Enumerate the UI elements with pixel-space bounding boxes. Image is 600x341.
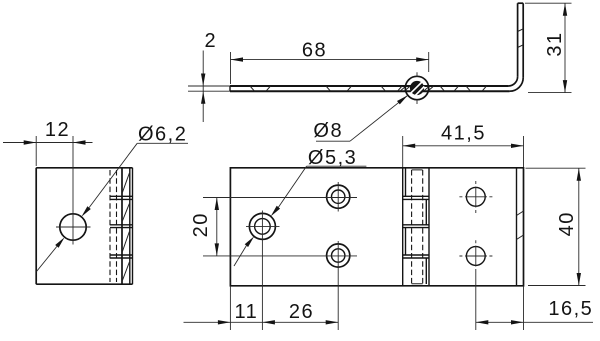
- strip section marks at barrel right: [424, 86, 434, 91]
- strip section mark pair 3: [381, 86, 402, 91]
- plan view bend tick upper: [517, 211, 524, 216]
- dimension 2 extension lines: [188, 86, 230, 91]
- dimension 11 arrow right: [262, 320, 275, 324]
- dimension 11 arrow left: [218, 320, 231, 324]
- svg-text:Ø8: Ø8: [313, 120, 343, 142]
- lower middle hole vertical centerline: [337, 241, 339, 330]
- dimension 16.5 arrow right: [511, 320, 524, 324]
- diameter 6.2 leader arrow: [81, 206, 90, 217]
- svg-text:2: 2: [204, 30, 217, 52]
- dimension 40 extension top: [526, 167, 586, 169]
- upper middle hole outer: [327, 185, 350, 208]
- plan view plate outline: [230, 168, 523, 286]
- diameter 8 leader underline: [316, 140, 350, 142]
- dimension 20 arrow bottom: [215, 243, 219, 256]
- dimension 40 arrow top: [577, 168, 581, 181]
- dimension 2 arrow upper: [201, 74, 205, 87]
- svg-text:20: 20: [190, 212, 212, 237]
- dimension 12 extension left: [35, 136, 37, 166]
- end view pin hidden lines: [110, 170, 117, 282]
- dimension 68 line: [231, 59, 429, 61]
- end view knuckle diagonal 2: [122, 204, 129, 222]
- strip section mark pair 5: [466, 86, 487, 91]
- side view strip top line: [230, 85, 509, 87]
- bottom extension right edge: [523, 286, 525, 330]
- right leaf upper hole: [466, 187, 485, 206]
- end view knuckle joint lines: [110, 196, 133, 258]
- dimension 41.5 line: [403, 145, 524, 147]
- dimension 16.5 arrow left: [476, 320, 489, 324]
- plan view bend line: [516, 168, 518, 286]
- dimension 68 extension right: [428, 52, 430, 72]
- lower middle hole inner: [332, 249, 345, 262]
- diameter 5.3 lower leader line: [234, 246, 246, 266]
- svg-text:40: 40: [556, 211, 578, 236]
- dimension 40 line: [578, 168, 580, 285]
- bottom dimension line left: [184, 321, 339, 323]
- leg top cap: [518, 2, 524, 4]
- dimension 2 arrow lower: [201, 91, 205, 104]
- leg right face: [522, 3, 524, 77]
- dimension 31 extension top: [525, 2, 572, 4]
- dimension 41.5 extension right: [523, 136, 525, 167]
- hole row centerline upper: [203, 197, 357, 199]
- knuckle segment edges: [406, 168, 427, 284]
- leg left face: [517, 3, 519, 76]
- diameter 5.3 underline: [307, 165, 367, 167]
- diameter 8 leader line: [350, 95, 408, 141]
- diameter 6.2 underline: [137, 142, 188, 144]
- right leaf lower hole: [466, 247, 485, 266]
- side view strip bottom line: [230, 90, 510, 92]
- dimension 31 line: [564, 3, 566, 92]
- barrel centerline ticks: [416, 72, 418, 104]
- svg-text:16,5: 16,5: [548, 298, 593, 320]
- end view hole: [60, 214, 86, 240]
- dimension 26 arrow right: [326, 320, 339, 324]
- diameter 5.3 leader arrow: [271, 206, 280, 217]
- dimension 40 extension bottom: [528, 285, 586, 287]
- bottom extension left edge: [229, 286, 231, 330]
- dimension 20 arrow top: [215, 198, 219, 211]
- dimension 12 arrow left: [24, 140, 37, 144]
- dimension 31 extension bottom: [528, 92, 572, 94]
- dimension 68 arrow left: [231, 57, 244, 61]
- diameter 8 leader arrow: [397, 95, 408, 104]
- dimension 41.5 arrow left: [403, 144, 416, 148]
- bend inner arc: [509, 77, 518, 86]
- svg-text:26: 26: [289, 301, 314, 323]
- dimension 20 line: [216, 198, 218, 256]
- dimension 68 arrow right: [416, 57, 429, 61]
- dimension 12 arrow right: [73, 140, 86, 144]
- diameter 6.2 lower arrow: [55, 237, 64, 248]
- strip section mark pair 1: [250, 86, 271, 91]
- bottom dimension line right: [476, 321, 593, 323]
- end view knuckle diagonal 4: [122, 262, 129, 281]
- diameter 5.3 leader line: [278, 166, 306, 207]
- dimension 12 line: [3, 142, 93, 144]
- dimension 2 line: [202, 51, 204, 123]
- end view leaf outline: [36, 168, 132, 284]
- countersunk hole centerlines: [246, 211, 280, 331]
- strip section mark pair 2: [326, 86, 352, 91]
- barrel outer circle: [405, 76, 428, 99]
- leg section tick lower: [518, 45, 524, 48]
- end view knuckle diagonal 1: [122, 173, 129, 193]
- right leaf upper hole centerlines: [459, 181, 492, 213]
- knuckle joint lines: [403, 196, 429, 258]
- strip section marks at barrel left: [401, 86, 411, 91]
- dimension 68 extension left: [230, 52, 232, 84]
- bend outer arc: [510, 78, 524, 92]
- end view knuckle diagonal 3: [122, 232, 129, 252]
- diameter 6.2 leader line: [89, 143, 137, 207]
- countersunk hole outer: [249, 213, 275, 239]
- right leaf lower hole centerlines: [459, 240, 492, 330]
- upper middle hole vertical centerline: [337, 182, 339, 212]
- upper middle hole inner: [332, 190, 345, 203]
- hole row centerline lower: [203, 255, 357, 257]
- dimension 40 arrow bottom: [577, 273, 581, 286]
- dimension 41.5 extension left: [402, 136, 404, 167]
- dimension 31 arrow top: [563, 3, 567, 16]
- svg-text:41,5: 41,5: [441, 123, 486, 145]
- svg-text:Ø5,3: Ø5,3: [308, 147, 357, 169]
- countersunk hole inner: [255, 219, 271, 235]
- svg-text:11: 11: [235, 301, 259, 323]
- leg section tick upper: [518, 29, 524, 32]
- dimension 41.5 arrow right: [511, 144, 524, 148]
- knuckle pin end caps: [412, 170, 423, 284]
- svg-text:Ø6,2: Ø6,2: [138, 124, 187, 146]
- dimension 31 arrow bottom: [563, 80, 567, 93]
- diameter 6.2 lower leader line: [37, 246, 57, 271]
- plan view bend tick lower: [517, 235, 524, 240]
- knuckle pin hidden lines: [412, 170, 423, 284]
- end view hole centerlines: [56, 136, 91, 245]
- lower middle hole outer: [327, 244, 350, 267]
- strip left end cap: [229, 86, 231, 91]
- svg-text:12: 12: [45, 119, 70, 141]
- strip section mark pair 4: [440, 86, 459, 91]
- svg-text:31: 31: [544, 31, 566, 56]
- svg-text:68: 68: [302, 40, 327, 62]
- diameter 5.3 lower arrow: [245, 236, 254, 247]
- knuckle right line: [428, 168, 430, 286]
- end view knuckle outer lines: [130, 168, 133, 284]
- knuckle left line: [402, 168, 404, 286]
- hinge pin section: [410, 81, 424, 95]
